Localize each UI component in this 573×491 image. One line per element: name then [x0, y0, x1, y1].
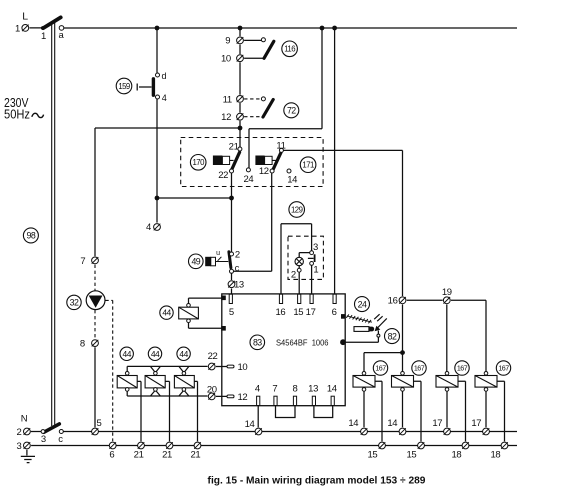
- svg-text:13: 13: [308, 384, 318, 395]
- svg-text:10: 10: [238, 362, 248, 373]
- svg-text:16: 16: [275, 307, 285, 318]
- svg-text:4: 4: [162, 93, 167, 103]
- svg-text:1: 1: [15, 23, 20, 34]
- svg-text:2: 2: [17, 427, 22, 438]
- svg-text:44: 44: [179, 349, 188, 359]
- svg-text:50Hz: 50Hz: [4, 107, 30, 122]
- svg-text:14: 14: [387, 418, 397, 429]
- svg-text:1: 1: [41, 31, 46, 42]
- svg-text:167: 167: [375, 365, 386, 373]
- svg-text:u: u: [216, 250, 220, 257]
- svg-text:15: 15: [293, 307, 303, 318]
- svg-text:fig. 15 - Main wiring diagram: fig. 15 - Main wiring diagram model 153 …: [208, 476, 426, 487]
- svg-text:98: 98: [27, 231, 36, 241]
- svg-text:116: 116: [284, 45, 295, 54]
- svg-text:72: 72: [287, 105, 296, 115]
- svg-text:2: 2: [291, 270, 296, 281]
- svg-text:3: 3: [17, 441, 22, 452]
- svg-text:12: 12: [238, 392, 248, 403]
- svg-text:L: L: [22, 11, 28, 23]
- svg-text:21: 21: [162, 449, 172, 460]
- svg-text:6: 6: [332, 307, 337, 318]
- svg-text:167: 167: [498, 365, 509, 373]
- svg-text:7: 7: [272, 384, 277, 395]
- svg-text:83: 83: [253, 337, 262, 347]
- svg-text:12: 12: [221, 112, 231, 123]
- svg-text:14: 14: [245, 419, 255, 430]
- svg-text:3: 3: [313, 242, 318, 253]
- svg-text:44: 44: [162, 308, 171, 318]
- svg-text:17: 17: [432, 418, 442, 429]
- svg-text:20: 20: [207, 384, 217, 395]
- svg-text:159: 159: [118, 82, 130, 91]
- svg-text:15: 15: [367, 449, 377, 460]
- svg-text:44: 44: [151, 349, 160, 359]
- svg-text:10: 10: [221, 54, 231, 65]
- svg-text:17: 17: [471, 418, 481, 429]
- svg-text:49: 49: [191, 256, 200, 266]
- svg-text:16: 16: [388, 296, 398, 307]
- svg-text:4: 4: [255, 384, 260, 395]
- svg-text:18: 18: [490, 449, 500, 460]
- svg-text:19: 19: [442, 287, 452, 298]
- svg-text:167: 167: [414, 365, 425, 373]
- svg-text:13: 13: [234, 280, 244, 291]
- svg-text:c: c: [235, 263, 240, 274]
- svg-text:3: 3: [41, 434, 46, 445]
- svg-text:c: c: [58, 434, 63, 445]
- svg-text:170: 170: [193, 158, 206, 167]
- svg-text:8: 8: [293, 384, 298, 395]
- svg-text:11: 11: [276, 140, 285, 151]
- svg-text:18: 18: [451, 449, 461, 460]
- svg-text:11: 11: [223, 95, 232, 106]
- svg-text:5: 5: [97, 418, 102, 429]
- svg-text:7: 7: [80, 256, 85, 267]
- svg-text:24: 24: [243, 174, 253, 185]
- svg-text:2: 2: [235, 250, 240, 261]
- svg-text:15: 15: [406, 449, 416, 460]
- svg-text:21: 21: [134, 449, 144, 460]
- svg-text:N: N: [21, 413, 28, 424]
- svg-text:21: 21: [229, 142, 239, 153]
- svg-text:22: 22: [208, 351, 218, 362]
- svg-text:22: 22: [218, 170, 228, 181]
- svg-text:21: 21: [190, 449, 200, 460]
- svg-text:S4564BF 1006: S4564BF 1006: [276, 339, 329, 348]
- svg-text:4: 4: [146, 222, 151, 233]
- svg-text:1: 1: [313, 264, 318, 275]
- svg-text:17: 17: [306, 307, 316, 318]
- svg-text:14: 14: [287, 174, 297, 185]
- svg-text:44: 44: [123, 349, 132, 359]
- svg-text:6: 6: [109, 449, 114, 460]
- svg-text:167: 167: [457, 365, 468, 373]
- svg-text:14: 14: [327, 384, 337, 395]
- svg-text:14: 14: [348, 418, 358, 429]
- svg-text:9: 9: [225, 36, 230, 47]
- svg-text:171: 171: [302, 161, 314, 170]
- svg-text:129: 129: [291, 205, 303, 214]
- svg-text:82: 82: [388, 331, 397, 341]
- svg-text:24: 24: [358, 299, 367, 309]
- svg-text:8: 8: [80, 339, 85, 350]
- svg-text:32: 32: [70, 298, 79, 308]
- svg-text:d: d: [162, 71, 167, 81]
- svg-text:12: 12: [259, 166, 269, 177]
- svg-text:5: 5: [229, 307, 234, 318]
